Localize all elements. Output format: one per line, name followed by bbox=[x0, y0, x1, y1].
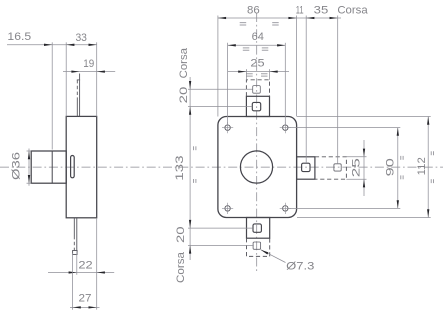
svg-text:112: 112 bbox=[416, 157, 428, 175]
center circle Ø36 bbox=[240, 151, 272, 183]
svg-text:35: 35 bbox=[314, 4, 329, 16]
dim 22 bbox=[48, 272, 114, 274]
svg-text:11: 11 bbox=[296, 4, 304, 16]
svg-text:Corsa: Corsa bbox=[175, 251, 187, 283]
svg-text:Ø7.3: Ø7.3 bbox=[286, 261, 314, 273]
dim 33 bbox=[65, 42, 67, 116]
svg-text:25: 25 bbox=[250, 57, 264, 69]
dim 25 right bbox=[363, 140, 365, 196]
svg-text:64: 64 bbox=[252, 31, 264, 43]
hole top-left bbox=[225, 125, 230, 130]
svg-text:20: 20 bbox=[175, 226, 187, 243]
dim 25 top bbox=[228, 71, 289, 73]
svg-text:133: 133 bbox=[174, 155, 186, 180]
rod block bottom extended dashed bbox=[247, 238, 270, 256]
dim column 20 Corsa / 133 / Corsa 20 bbox=[189, 77, 191, 260]
dim 16.5 bbox=[7, 44, 97, 46]
svg-text:Corsa: Corsa bbox=[337, 4, 368, 16]
dim 19 bbox=[63, 71, 115, 73]
symmetry marks 133 bbox=[194, 146, 196, 183]
hole bottom-right bbox=[283, 206, 288, 211]
dim 64 bbox=[228, 44, 286, 46]
svg-text:Corsa: Corsa bbox=[178, 47, 190, 78]
pin square right extended bbox=[334, 164, 341, 171]
dim 27 bbox=[70, 306, 100, 308]
svg-text:Ø36: Ø36 bbox=[11, 152, 23, 180]
dim 112 bbox=[427, 117, 429, 218]
svg-text:90: 90 bbox=[384, 158, 396, 176]
symmetry marks 64 bbox=[243, 48, 268, 50]
dim 90 bbox=[397, 128, 399, 209]
svg-text:20: 20 bbox=[178, 87, 190, 104]
plate front view bbox=[218, 117, 297, 218]
rod block bottom bbox=[247, 218, 270, 239]
dim row 86 / 11 / 35 Corsa bbox=[218, 17, 341, 19]
rod block top bbox=[246, 96, 269, 116]
pin square bottom extended Ø7.3 bbox=[253, 242, 261, 249]
svg-text:19: 19 bbox=[83, 58, 94, 70]
rod block right extended dashed bbox=[315, 157, 347, 179]
rod bottom side view bbox=[76, 218, 78, 251]
svg-text:33: 33 bbox=[75, 32, 87, 44]
svg-text:86: 86 bbox=[247, 4, 260, 16]
symmetry marks 90 bbox=[401, 156, 403, 179]
pin square bottom rest bbox=[253, 224, 261, 232]
leader Ø7.3 bbox=[261, 250, 315, 273]
rod tip cap bottom bbox=[73, 251, 78, 255]
centerline horizontal main axis bbox=[0, 166, 443, 168]
slot capsule side view bbox=[71, 156, 75, 178]
rod block right bbox=[297, 157, 315, 179]
cylinder side view bbox=[31, 151, 66, 183]
symmetry marks 25 bbox=[246, 74, 267, 76]
dim Ø36 bbox=[28, 149, 30, 186]
svg-text:22: 22 bbox=[78, 259, 92, 271]
body side view bbox=[66, 116, 97, 217]
symmetry marks 112 bbox=[431, 151, 433, 183]
cylinder step line bbox=[51, 151, 53, 183]
symmetry marks 86 bbox=[240, 23, 279, 25]
rod block top extended dashed bbox=[246, 80, 269, 97]
rod top side view bbox=[79, 74, 81, 117]
svg-text:16.5: 16.5 bbox=[7, 31, 31, 43]
pin square top extended bbox=[253, 86, 261, 94]
centerline vertical front view bbox=[256, 13, 258, 272]
pin square top rest bbox=[252, 102, 260, 110]
svg-text:25: 25 bbox=[351, 158, 363, 177]
hole bottom-left bbox=[225, 206, 230, 211]
svg-text:27: 27 bbox=[79, 293, 92, 305]
pin square right rest bbox=[302, 163, 310, 171]
hole top-right bbox=[283, 125, 288, 130]
